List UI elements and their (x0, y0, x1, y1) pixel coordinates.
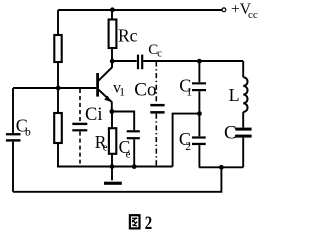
svg-text:1: 1 (119, 87, 125, 99)
svg-text:Rc: Rc (118, 26, 138, 46)
svg-text:1: 1 (186, 87, 192, 99)
svg-text:e: e (103, 142, 108, 154)
svg-text:L: L (229, 85, 240, 105)
svg-text:Co: Co (134, 79, 156, 100)
svg-text:2: 2 (185, 141, 191, 153)
svg-text:c: c (157, 49, 162, 60)
svg-text:cc: cc (248, 9, 258, 21)
svg-text:2: 2 (145, 212, 152, 233)
svg-text:b: b (25, 126, 31, 138)
svg-text:e: e (126, 149, 131, 161)
svg-text:C: C (224, 122, 237, 143)
svg-text:Ci: Ci (85, 105, 102, 125)
